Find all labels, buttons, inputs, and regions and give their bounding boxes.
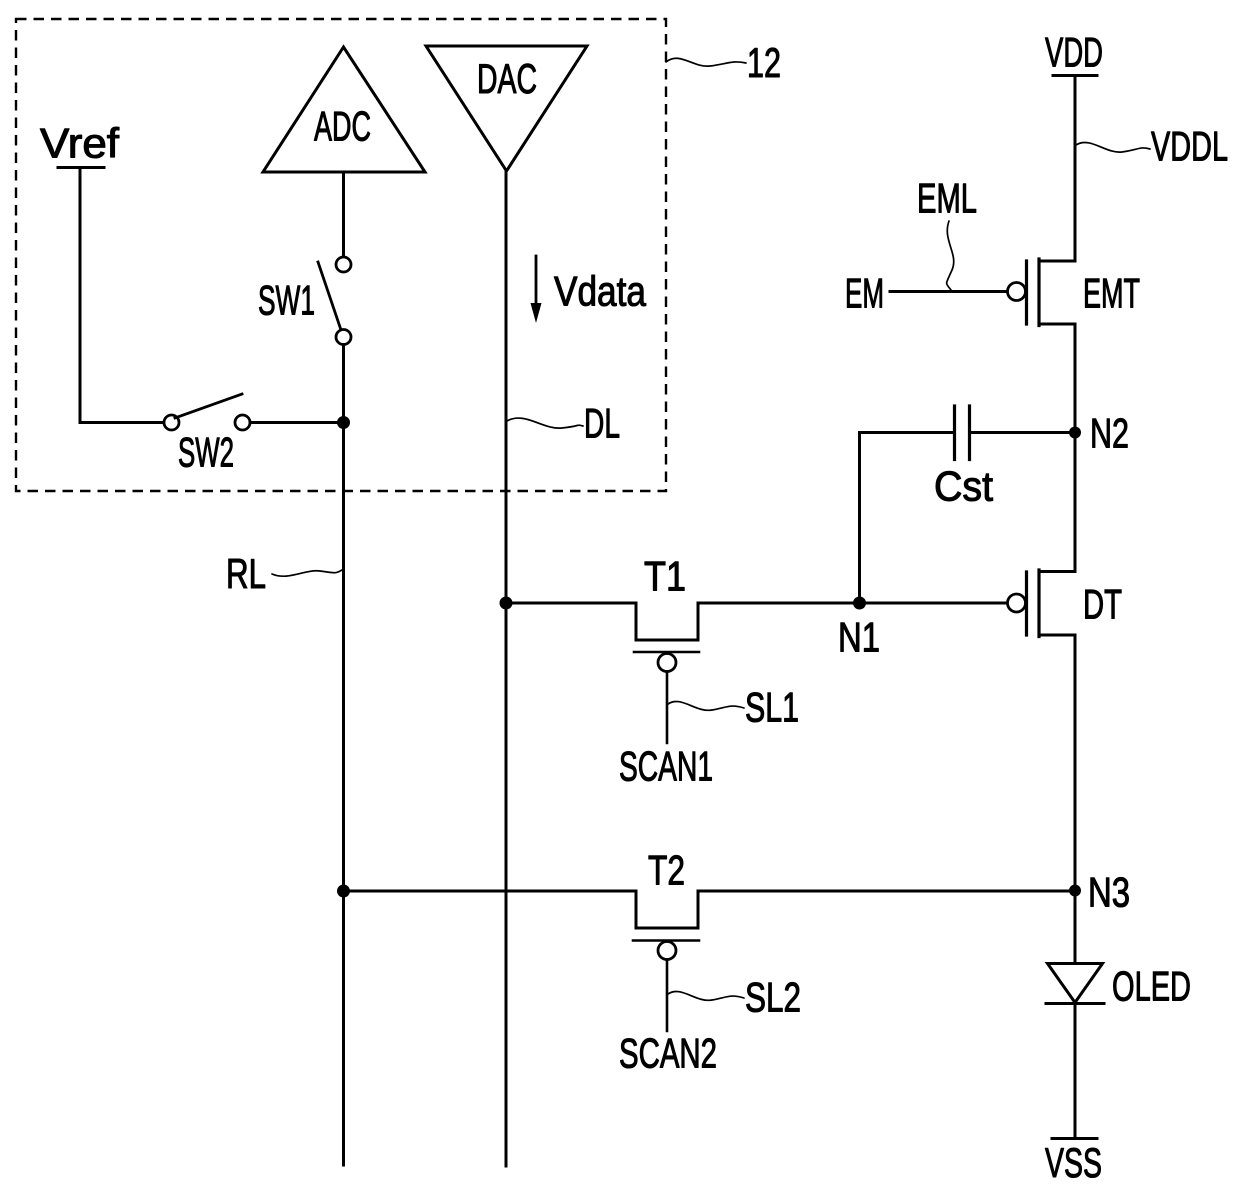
svg-text:SW2: SW2 — [178, 429, 234, 476]
svg-text:Cst: Cst — [934, 463, 993, 510]
svg-text:SW1: SW1 — [258, 277, 315, 324]
svg-text:VSS: VSS — [1045, 1139, 1102, 1186]
svg-text:N2: N2 — [1090, 410, 1129, 457]
svg-text:N3: N3 — [1088, 869, 1130, 916]
svg-text:EMT: EMT — [1083, 270, 1140, 317]
svg-text:T1: T1 — [644, 553, 686, 600]
svg-text:SCAN1: SCAN1 — [619, 743, 713, 790]
svg-text:RL: RL — [226, 550, 266, 597]
svg-text:Vref: Vref — [40, 120, 119, 167]
svg-text:T2: T2 — [648, 847, 685, 894]
svg-text:VDDL: VDDL — [1151, 123, 1228, 170]
svg-text:OLED: OLED — [1112, 963, 1191, 1010]
svg-text:N1: N1 — [838, 614, 880, 661]
svg-text:12: 12 — [747, 39, 781, 86]
svg-text:ADC: ADC — [314, 103, 371, 150]
svg-text:SL2: SL2 — [745, 974, 801, 1021]
svg-text:Vdata: Vdata — [554, 268, 647, 315]
svg-text:VDD: VDD — [1045, 29, 1103, 76]
svg-text:DAC: DAC — [477, 55, 537, 102]
svg-text:SL1: SL1 — [745, 684, 799, 731]
svg-text:EM: EM — [845, 270, 884, 317]
svg-text:SCAN2: SCAN2 — [619, 1030, 717, 1077]
svg-text:DL: DL — [584, 400, 620, 447]
svg-text:EML: EML — [917, 175, 977, 222]
svg-text:DT: DT — [1083, 581, 1122, 628]
